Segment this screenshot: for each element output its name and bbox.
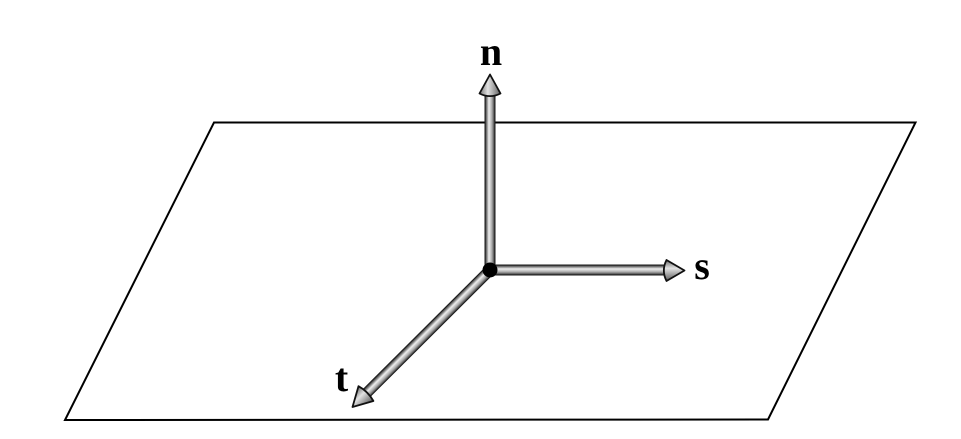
svg-text:n: n <box>480 29 502 74</box>
svg-text:t: t <box>335 355 349 400</box>
svg-text:s: s <box>694 243 710 288</box>
